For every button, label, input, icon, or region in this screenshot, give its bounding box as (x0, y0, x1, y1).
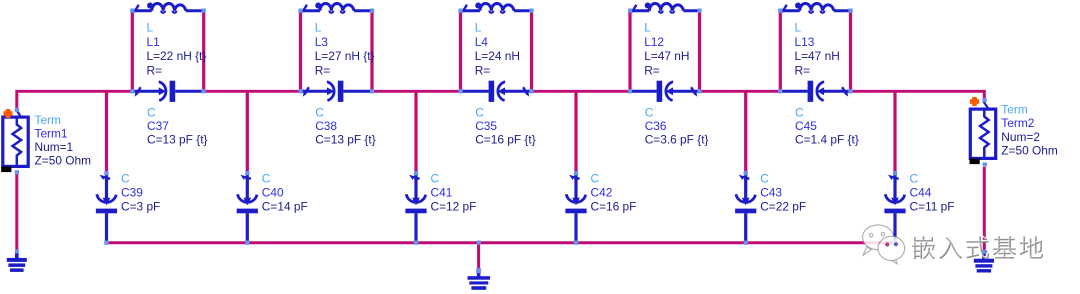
ground: right (Term2) (974, 250, 994, 272)
svg-text:L1: L1 (147, 35, 161, 49)
Term2 pin1 marker (orange cross) (970, 97, 979, 106)
svg-text:L: L (315, 21, 322, 35)
node: Term1 bottom pin (15, 170, 19, 174)
inductor L12 labels (644, 21, 689, 78)
node: Term1 top pin (15, 108, 19, 112)
capacitor C40 labels (262, 171, 308, 213)
svg-text:C=22 pF: C=22 pF (760, 200, 806, 214)
svg-text:Term2: Term2 (1001, 116, 1034, 130)
wire: Term1 to ground (15, 175, 18, 252)
node: Term2 top pin (982, 98, 986, 102)
capacitor C40 (shunt) (237, 173, 258, 243)
inductor L13 (779, 3, 852, 14)
wire: shunt branch to C41 (414, 92, 417, 171)
svg-text:Term: Term (35, 113, 62, 127)
svg-text:C: C (910, 171, 919, 185)
node: bus left of C37 (130, 89, 134, 93)
svg-text:C: C (760, 171, 769, 185)
node: top-left of L12 (628, 9, 632, 13)
svg-text:C41: C41 (431, 186, 453, 200)
svg-text:C35: C35 (475, 119, 497, 133)
node: junction C42 bottom (574, 241, 578, 245)
svg-text:C=12 pF: C=12 pF (431, 200, 477, 214)
capacitor C44 labels (910, 171, 955, 213)
svg-text:L: L (147, 21, 154, 35)
node: bus left of C35 (458, 89, 462, 93)
term Term1 (1, 110, 28, 173)
svg-text:C=14 pF: C=14 pF (262, 200, 308, 214)
svg-text:L13: L13 (795, 35, 815, 49)
wire: resonator L13 right riser (849, 12, 852, 90)
node: top-left of L3 (298, 9, 302, 13)
node: top-right of L1 (202, 9, 206, 13)
svg-text:R=: R= (315, 63, 331, 77)
svg-text:C: C (431, 171, 440, 185)
svg-text:Z=50 Ohm: Z=50 Ohm (1001, 143, 1058, 157)
wire: center ground stem (477, 244, 480, 269)
capacitor C42 (shunt) (565, 173, 586, 243)
svg-text:C42: C42 (591, 186, 613, 200)
svg-text:C=13 pF {t}: C=13 pF {t} (147, 132, 208, 146)
wire: resonator L1 right riser (202, 12, 205, 90)
svg-text:C=3 pF: C=3 pF (121, 200, 160, 214)
node: top-left of L1 (130, 9, 134, 13)
wire: shunt branch to C42 (574, 92, 577, 171)
svg-text:R=: R= (644, 63, 660, 77)
wire: shunt branch to C44 (893, 92, 896, 171)
capacitor C35 (series) (460, 81, 532, 102)
svg-text:C=16 pF {t}: C=16 pF {t} (475, 132, 536, 146)
svg-text:R=: R= (475, 63, 491, 77)
svg-text:L4: L4 (475, 35, 489, 49)
capacitor C42 labels (591, 171, 637, 213)
node: top-left of L13 (778, 9, 782, 13)
svg-text:C: C (262, 171, 271, 185)
node: top-right of L12 (697, 9, 701, 13)
svg-text:C=3.6 pF {t}: C=3.6 pF {t} (645, 132, 709, 146)
svg-text:L=22 nH {t}: L=22 nH {t} (147, 49, 207, 63)
ground: center (bottom bus) (468, 269, 491, 290)
inductor L13 labels (795, 21, 840, 78)
node: junction C43 top (744, 171, 748, 175)
node: center ground pin (476, 268, 481, 273)
node: top-right of L3 (370, 9, 374, 13)
node: bus right of C37 (202, 89, 206, 93)
capacitor C37 labels (147, 106, 208, 147)
capacitor C39 (shunt) (96, 173, 117, 243)
svg-text:Z=50 Ohm: Z=50 Ohm (35, 154, 92, 168)
node: bus left of C45 (778, 89, 782, 93)
svg-text:C38: C38 (315, 119, 337, 133)
svg-text:R=: R= (795, 63, 811, 77)
node: center ground junction on bus (477, 241, 481, 245)
capacitor C45 labels (795, 106, 859, 147)
capacitor C43 (shunt) (735, 173, 756, 243)
svg-text:C36: C36 (645, 119, 667, 133)
node: bus left of C36 (628, 89, 632, 93)
node: Term2 bottom pin (983, 162, 987, 166)
svg-text:C=16 pF: C=16 pF (591, 200, 637, 214)
svg-text:L: L (644, 21, 651, 35)
watermark: bubble eyes (885, 242, 898, 247)
node: bus right of C36 (697, 89, 701, 93)
ground: left (Term1) (7, 250, 27, 272)
svg-text:L: L (795, 21, 802, 35)
svg-text:L=47 nH: L=47 nH (795, 49, 840, 63)
capacitor C38 labels (315, 106, 376, 147)
wire: shunt branch to C43 (744, 92, 747, 171)
node: bus left of C38 (298, 89, 302, 93)
svg-text:C: C (591, 171, 600, 185)
node: junction C44 top (893, 171, 897, 175)
svg-text:C40: C40 (262, 186, 284, 200)
wire: bottom ground bus (105, 241, 897, 244)
capacitor C36 labels (645, 106, 709, 147)
svg-text:Num=2: Num=2 (1001, 130, 1040, 144)
svg-text:C39: C39 (121, 186, 143, 200)
watermark: text 嵌入式基地 (911, 235, 1043, 259)
svg-text:L12: L12 (644, 35, 664, 49)
node: bus right of C38 (370, 89, 374, 93)
wire: resonator L12 left riser (628, 12, 631, 90)
svg-text:L=47 nH: L=47 nH (644, 49, 689, 63)
wire: resonator L3 left riser (299, 12, 302, 90)
node: junction C44 bottom (893, 241, 897, 245)
Term2 labels (1001, 103, 1058, 158)
watermark: wechat logo bubbles (863, 225, 905, 264)
svg-text:L3: L3 (315, 35, 329, 49)
inductor L3 labels (315, 21, 375, 78)
svg-text:L=27 nH {t}: L=27 nH {t} (315, 49, 375, 63)
inductor L1 (131, 3, 205, 14)
svg-text:C=1.4 pF {t}: C=1.4 pF {t} (795, 132, 859, 146)
wire: Term1 drop from bus (15, 90, 18, 110)
svg-text:Num=1: Num=1 (35, 140, 74, 154)
svg-text:C44: C44 (910, 186, 932, 200)
node: junction C40 bottom (245, 241, 249, 245)
wire: resonator L3 right riser (370, 12, 373, 90)
wire: shunt branch to C39 (105, 92, 108, 171)
svg-text:C=13 pF {t}: C=13 pF {t} (315, 132, 376, 146)
capacitor C36 (series) (629, 81, 699, 102)
svg-text:Term: Term (1001, 103, 1028, 117)
wire: resonator L13 left riser (779, 12, 782, 90)
wire: resonator L1 left riser (131, 12, 134, 90)
node: top-right of L13 (848, 9, 852, 13)
node: junction C41 top (414, 171, 418, 175)
wire: resonator L4 right riser (530, 12, 533, 90)
node: bus right of C45 (848, 89, 852, 93)
svg-text:C: C (645, 106, 654, 120)
svg-text:C: C (795, 106, 804, 120)
node: top-right of L4 (529, 9, 533, 13)
node: bus right of C35 (529, 89, 533, 93)
node: junction C41 bottom (414, 241, 418, 245)
node: junction C42 top (574, 171, 578, 175)
svg-text:Term1: Term1 (35, 127, 68, 141)
inductor L12 (629, 3, 701, 14)
svg-text:C43: C43 (760, 186, 782, 200)
svg-text:L: L (475, 21, 482, 35)
wire: shunt branch to C40 (246, 92, 249, 171)
inductor L4 labels (475, 21, 520, 78)
wire: resonator L4 left riser (459, 12, 462, 90)
node: top-left of L4 (458, 9, 462, 13)
inductor L3 (299, 3, 373, 14)
capacitor C39 labels (121, 171, 160, 213)
capacitor C45 (series) (779, 81, 850, 102)
svg-text:C: C (315, 106, 324, 120)
node: junction C39 top (104, 171, 108, 175)
wire: Term2 drop from bus (983, 90, 986, 100)
wire: Term2 to ground (983, 167, 986, 252)
node: Term2 ground pin (982, 250, 986, 254)
capacitor C38 (series) (301, 81, 373, 102)
svg-text:C45: C45 (795, 119, 817, 133)
svg-text:L=24 nH: L=24 nH (475, 49, 520, 63)
svg-text:C: C (147, 106, 156, 120)
Term1 pin1 marker (orange cross) (4, 109, 13, 118)
capacitor C43 labels (760, 171, 806, 213)
Term1 labels (35, 113, 92, 168)
capacitor C41 (shunt) (405, 173, 426, 243)
capacitor C41 labels (431, 171, 477, 213)
svg-text:C37: C37 (147, 119, 169, 133)
term Term2 (970, 102, 996, 165)
inductor L4 (459, 3, 532, 14)
svg-text:C: C (121, 171, 130, 185)
svg-text:R=: R= (147, 63, 163, 77)
inductor L1 labels (147, 21, 207, 78)
node: junction C40 top (245, 171, 249, 175)
node: junction C43 bottom (744, 241, 748, 245)
capacitor C35 labels (475, 106, 536, 147)
node: junction C39 bottom (104, 241, 108, 245)
capacitor C44 (shunt) (884, 173, 905, 243)
wire: main top bus (segmented) (16, 90, 134, 93)
svg-text:C=11 pF: C=11 pF (910, 200, 955, 214)
svg-text:C: C (475, 106, 484, 120)
node: Term1 ground pin (15, 249, 19, 253)
capacitor C37 (series) (133, 81, 205, 102)
wire: resonator L12 right riser (698, 12, 701, 90)
